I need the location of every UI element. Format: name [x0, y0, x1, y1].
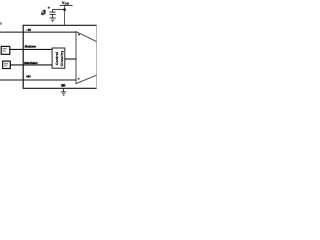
svg-text:−IN: −IN	[26, 28, 31, 32]
svg-text:Gain Select: Gain Select	[24, 61, 38, 65]
svg-text:Circuitry: Circuitry	[60, 51, 64, 67]
svg-text:+IN: +IN	[26, 75, 31, 79]
svg-text:Control: Control	[55, 52, 59, 65]
svg-text:Shutdown: Shutdown	[25, 44, 37, 48]
svg-text:1µF: 1µF	[41, 11, 46, 15]
svg-text:VDD: VDD	[62, 1, 69, 5]
svg-text:GND: GND	[61, 83, 66, 87]
